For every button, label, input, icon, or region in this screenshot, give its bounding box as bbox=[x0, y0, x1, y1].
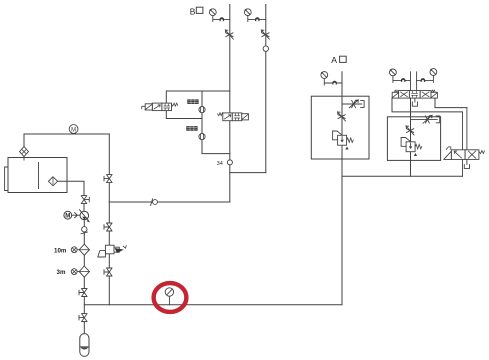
wire strainer to pump column bbox=[58, 181, 84, 195]
bracket B branch bbox=[436, 116, 440, 123]
svg-text:B: B bbox=[190, 6, 196, 16]
wire right network H7 bbox=[342, 175, 463, 177]
wire between orifices bbox=[201, 113, 203, 134]
filter F1 10m bbox=[79, 244, 89, 255]
gate valve above manifold bbox=[79, 289, 87, 297]
gate valve mid 2 bbox=[104, 223, 112, 231]
wire pump outlet down bbox=[83, 220, 85, 227]
clog indicator F2 bbox=[71, 269, 77, 275]
wire orifice to V1 bbox=[202, 140, 230, 154]
node 34 junction bbox=[227, 160, 232, 165]
wire gauge B1 stem bbox=[213, 16, 230, 22]
label big flow bbox=[186, 126, 197, 131]
solenoid valve SV1 bbox=[142, 103, 178, 111]
wire vertical line V1 bbox=[229, 5, 231, 203]
wire to filter1 bbox=[83, 232, 85, 244]
shaft link bbox=[72, 213, 80, 218]
wire crossover H1 bbox=[230, 172, 266, 174]
red highlight circle bbox=[154, 283, 187, 312]
wire through manifold junction bbox=[83, 297, 85, 314]
gauge C1 bbox=[390, 69, 397, 76]
tap on A1 stem bbox=[332, 81, 337, 85]
solenoid valve SV4 bbox=[444, 147, 485, 160]
wire gauge C1 stem bbox=[393, 76, 411, 83]
directional valve DV1 4/3 bbox=[392, 90, 437, 98]
suction strainer diamond bbox=[48, 177, 57, 186]
solenoid valve SV2 bbox=[218, 113, 249, 121]
manifold block bbox=[392, 98, 467, 112]
gate valve mid top bbox=[104, 175, 112, 183]
B block box2 bbox=[387, 117, 440, 161]
relief valve B bbox=[401, 138, 422, 157]
motor M1 bbox=[64, 211, 72, 219]
wire P line down from manifold bbox=[410, 98, 412, 176]
wire gauge A1 stem bbox=[324, 79, 342, 85]
throttle on B branch bbox=[423, 115, 432, 123]
gate valve accumulator bbox=[79, 314, 87, 322]
wire down to breather bbox=[23, 134, 25, 147]
tap on B2 stem bbox=[255, 17, 260, 21]
wire F1 to F2 bbox=[83, 255, 85, 266]
svg-text:M: M bbox=[71, 127, 76, 133]
check ball on V2 bbox=[263, 46, 268, 51]
wire SV4 bottom ports bbox=[463, 159, 467, 176]
wire vertical line V2 bbox=[265, 5, 267, 173]
pump P1 variable bbox=[80, 210, 90, 223]
svg-text:34: 34 bbox=[217, 161, 223, 167]
gauge C2 bbox=[430, 69, 437, 76]
wire right drop lines bbox=[463, 108, 467, 150]
svg-text:A: A bbox=[331, 55, 337, 65]
gate valve suction bbox=[81, 196, 89, 204]
bypass box outline bbox=[166, 91, 230, 119]
tank bbox=[8, 158, 67, 193]
throttle on A main bbox=[338, 112, 346, 121]
wire A side branch bbox=[342, 103, 362, 105]
gate valve mid 3 bbox=[104, 268, 112, 276]
tap on C2 stem bbox=[421, 78, 426, 82]
A block box bbox=[311, 96, 369, 159]
throttle on B main bbox=[406, 126, 414, 135]
accumulator bbox=[80, 334, 89, 357]
label A port square bbox=[340, 56, 347, 62]
orifice big flow bbox=[199, 134, 205, 140]
svg-text:10m: 10m bbox=[54, 247, 67, 254]
orifice small flow bbox=[201, 91, 203, 107]
clog indicator F1 bbox=[71, 247, 77, 253]
flow meter M on return line bbox=[69, 125, 78, 134]
wire F2 down bbox=[83, 277, 85, 288]
tap on B1 stem bbox=[220, 17, 225, 21]
throttle on V2 bbox=[261, 30, 269, 39]
relief valve A bbox=[333, 131, 354, 150]
label small flow bbox=[187, 99, 198, 104]
filter F2 3m bbox=[79, 266, 89, 277]
throttle on V1 bbox=[225, 30, 233, 39]
wire indicator to F1 bbox=[77, 249, 79, 251]
wire work lines above DV1 bbox=[411, 72, 417, 91]
gauge at red circle bbox=[165, 288, 173, 305]
bracket A branch bbox=[361, 101, 365, 108]
wire main line A vertical bbox=[341, 72, 343, 305]
throttle on A branch bbox=[349, 100, 358, 108]
tank drain in manifold bbox=[412, 98, 417, 106]
branch line to valve block bbox=[109, 201, 230, 203]
wire indicator to F2 bbox=[77, 271, 79, 273]
test coupling on branch bbox=[151, 199, 158, 206]
tank level gauge bracket bbox=[5, 167, 8, 191]
tap on C1 stem bbox=[401, 78, 406, 82]
wire gauge C2 stem bbox=[417, 75, 434, 82]
wire gauge B2 stem bbox=[248, 16, 266, 22]
gauge A1 bbox=[321, 72, 328, 79]
wire B side branch bbox=[411, 118, 438, 120]
middle column vertical bbox=[108, 134, 110, 305]
svg-text:3m: 3m bbox=[57, 269, 66, 276]
gauge B1 bbox=[209, 9, 216, 16]
solenoid cartridge valve bbox=[98, 245, 126, 257]
breather filter diamond bbox=[20, 147, 29, 160]
wire to accumulator bbox=[83, 322, 85, 334]
svg-text:M: M bbox=[65, 213, 70, 220]
wire return line top bbox=[24, 133, 109, 135]
tank drain under SV4 bbox=[464, 165, 469, 169]
bottom manifold line bbox=[84, 304, 342, 306]
gauge B2 bbox=[244, 9, 251, 16]
label B port square bbox=[196, 7, 203, 13]
check valve bbox=[81, 227, 88, 235]
wire to pump bbox=[83, 204, 85, 212]
tank baffle bbox=[38, 163, 40, 189]
